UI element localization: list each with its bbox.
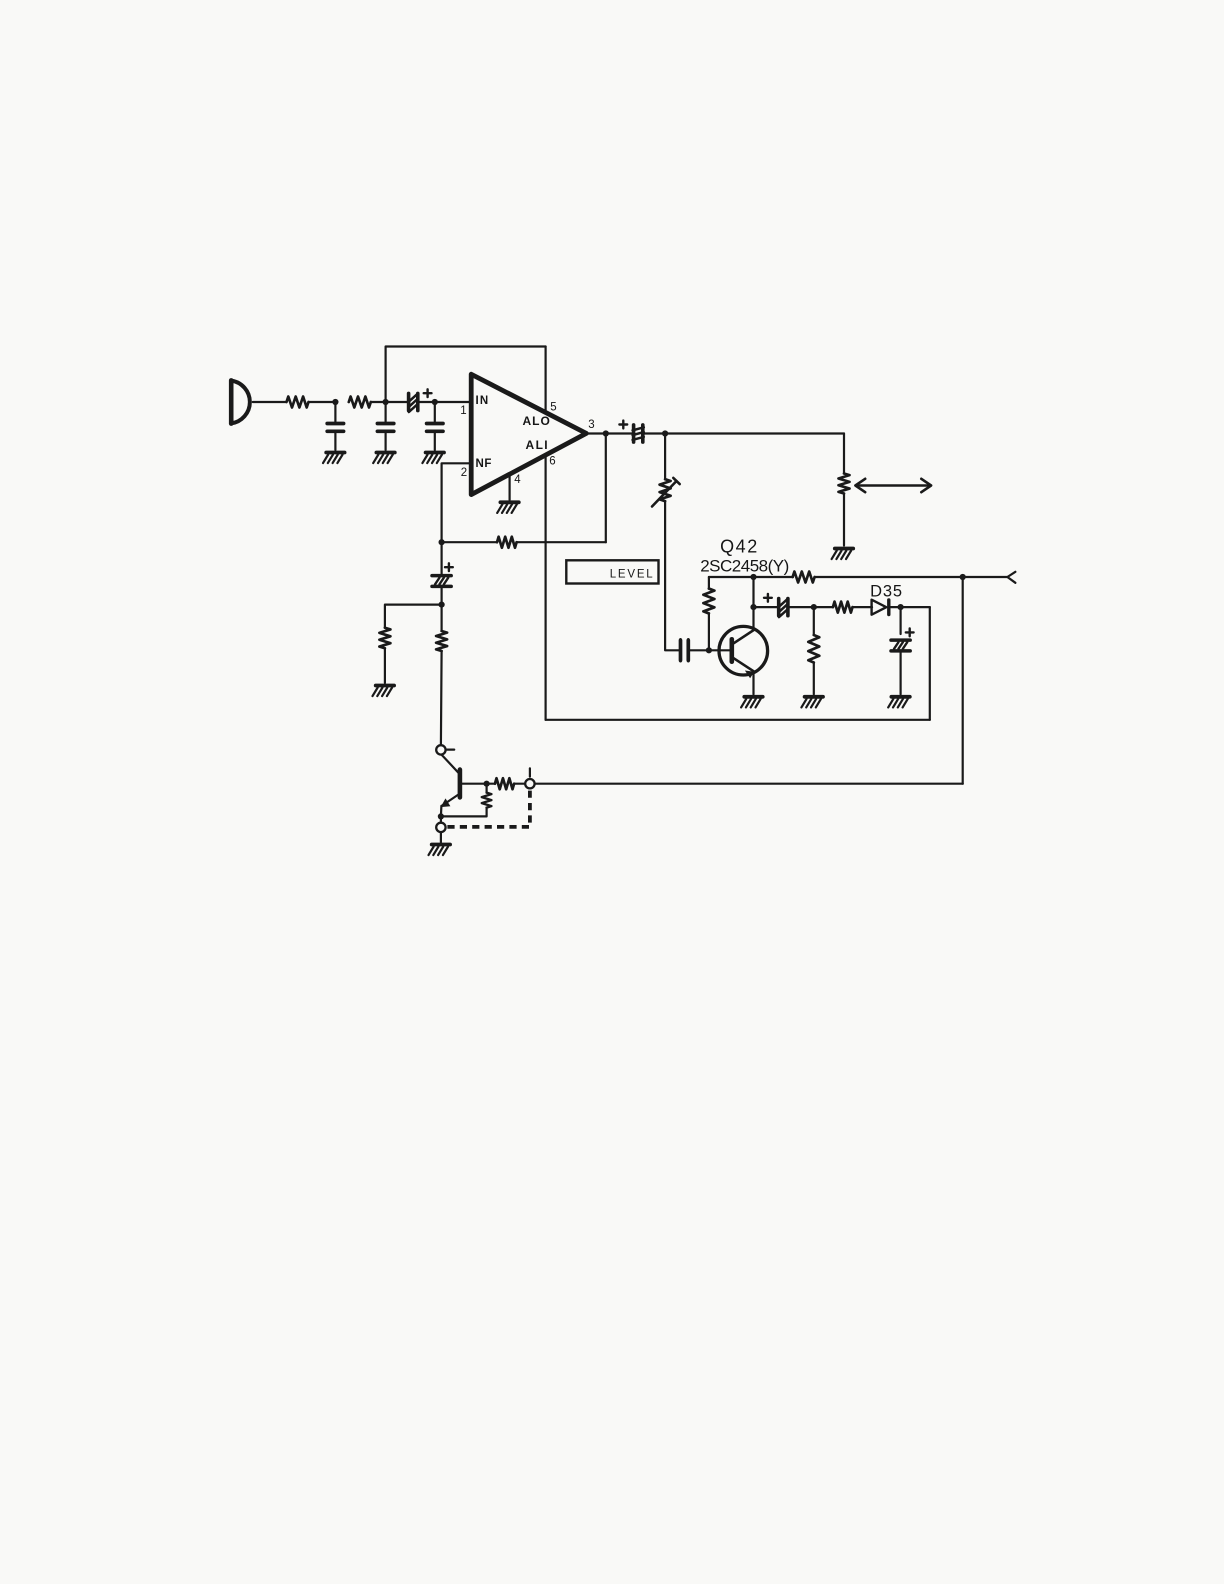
wire: [419, 401, 435, 403]
variable resistor VR line down: [664, 434, 666, 480]
variable resistor VR: [660, 479, 671, 501]
svg-text:IN: IN: [476, 395, 490, 407]
node diode out: [898, 604, 904, 610]
ground: [373, 686, 395, 697]
node base: [706, 647, 712, 653]
node A input: [332, 399, 338, 405]
resistor branch series: [833, 602, 853, 613]
op-amp U1 triangle: [471, 374, 586, 494]
connector arrow out: [1007, 572, 1015, 583]
ground: [373, 453, 395, 464]
output wire pin 3: [586, 432, 633, 434]
resistor R input 1: [287, 397, 309, 408]
wire: [644, 432, 845, 434]
svg-text:ALO: ALO: [523, 414, 551, 428]
polarized capacitor input coupling: [409, 393, 418, 412]
svg-text:4: 4: [514, 474, 521, 486]
collector wire up: [752, 577, 754, 630]
resistor mid to ground: [813, 607, 815, 635]
svg-text:2SC2458(Y): 2SC2458(Y): [700, 557, 789, 576]
wire to S3: [440, 816, 442, 822]
NF feedback row: vertical from output node down: [605, 434, 607, 543]
ground lower: [429, 845, 451, 856]
node rail junction: [960, 574, 966, 580]
wire: [309, 401, 336, 403]
resistor NF feedback: [497, 537, 517, 548]
pin 2 wire NF: [442, 463, 472, 542]
capacitor to ground 3: [434, 402, 436, 422]
polarized capacitor NF column: [441, 542, 443, 575]
wire to pin 1: [435, 401, 471, 403]
node emitter lower: [438, 813, 444, 819]
emitter wire down: [440, 806, 443, 817]
emitter wire down: [752, 671, 754, 694]
transistor Q lower emitter slant: [442, 795, 458, 806]
resistor base series: [495, 778, 514, 789]
ground load: [832, 549, 854, 560]
capacitor base input: [681, 640, 689, 660]
node collector top rail: [750, 574, 756, 580]
svg-text:3: 3: [588, 419, 594, 431]
resistor output load: [839, 473, 850, 493]
right riser wire: [962, 577, 964, 784]
svg-text:2: 2: [461, 467, 467, 479]
wire left branch: [385, 605, 442, 628]
resistor base bias (left): [708, 577, 710, 589]
wire mic to R: [253, 401, 287, 403]
wire: [789, 606, 833, 608]
LEVEL box: [566, 560, 658, 583]
svg-text:5: 5: [550, 402, 556, 414]
resistor on top rail: [793, 572, 815, 583]
feedback tap wire node B up and over: [386, 347, 546, 403]
svg-text:1: 1: [460, 405, 466, 417]
resistor emitter lower: [486, 784, 488, 793]
top rail of Q42 stage: [709, 576, 793, 578]
transistor Q lower base bar: [458, 770, 463, 798]
pin 4 stub: [509, 474, 511, 500]
ground: [422, 453, 444, 464]
polarized capacitor smoothing: [899, 607, 901, 634]
svg-text:LEVEL: LEVEL: [610, 569, 655, 581]
collector branch node: [750, 604, 756, 610]
svg-text:NF: NF: [476, 458, 493, 470]
ground: [801, 697, 823, 708]
VR arrow: [652, 481, 677, 507]
ground pin 4: [497, 502, 519, 513]
wire: [517, 541, 606, 543]
box right vertical: [929, 607, 931, 720]
wire: [853, 606, 873, 608]
node mid branch: [811, 604, 817, 610]
capacitor to ground 1: [334, 402, 336, 422]
node to VR: [662, 430, 668, 436]
switch contact S1: [436, 745, 445, 754]
resistor R input 2: [349, 397, 371, 408]
ground: [888, 697, 910, 708]
jack contact S2: [525, 779, 534, 788]
node B input: [383, 399, 389, 405]
capacitor to ground 2: [385, 402, 387, 422]
box bottom rail: [546, 719, 930, 721]
wire rail to connector: [815, 576, 1008, 578]
switch contact S3: [436, 823, 445, 832]
wire: [371, 401, 386, 403]
transistor Q lower collector slant: [442, 755, 459, 773]
node C input: [432, 399, 438, 405]
dashed mechanical link: [447, 791, 530, 827]
node output: [603, 430, 609, 436]
ground emitter: [741, 697, 763, 708]
node NF junction: [439, 539, 445, 545]
resistor NF column lower: [441, 605, 443, 631]
box left vertical lower segment (pin 6 lead): [544, 454, 546, 720]
wire base: [688, 649, 729, 651]
svg-text:Q42: Q42: [720, 537, 759, 557]
svg-text:6: 6: [549, 456, 555, 468]
wire node B to cap: [386, 401, 409, 403]
wire output right column: [843, 434, 845, 474]
polarized capacitor branch coupling: [779, 599, 788, 618]
svg-text:ALI: ALI: [526, 438, 550, 452]
base wire: [462, 783, 494, 785]
node NF column: [439, 602, 445, 608]
wire jack to right riser: [535, 783, 963, 785]
resistor left to ground: [379, 628, 390, 648]
wire: [889, 606, 930, 608]
box left vertical upper segment (pin 5 lead): [544, 347, 546, 411]
svg-text:D35: D35: [870, 583, 903, 601]
wire: [514, 783, 525, 785]
transistor Q42: [719, 626, 768, 678]
double arrow adjust: [855, 479, 931, 492]
wire collector branch: [754, 606, 779, 608]
microphone MIC: [231, 380, 250, 423]
wire NF row: [442, 541, 497, 543]
polarized capacitor output coupling: [633, 425, 644, 442]
diode D35: [872, 600, 889, 615]
node base lower: [484, 781, 490, 787]
ground: [323, 453, 345, 464]
